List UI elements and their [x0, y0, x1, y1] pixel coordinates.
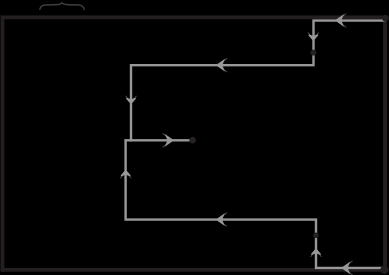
node (frame corner, bottom-right) — [380, 266, 388, 274]
node (frame corner, bottom-left) — [0, 267, 5, 272]
node (terminal dot of jog wire) — [189, 137, 196, 144]
arrow (down, on upper left vertical) — [126, 96, 137, 104]
node (dark bead on upper right vertical) — [310, 50, 316, 56]
node (dark bead on lower right vertical) — [313, 233, 319, 239]
node (frame corner, top-right) — [382, 15, 389, 22]
arrow (left, on top wire) — [336, 14, 346, 28]
arrow (left, on middle horizontal wire) — [217, 58, 227, 72]
arrow (up, on lower left vertical) — [120, 171, 131, 179]
arrow (up, on lower right vertical) — [311, 249, 322, 257]
wire (lower path: up left vertical, bottom horizontal, right vertical, along bottom border) — [126, 139, 385, 268]
arrow (left, on bottom wire) — [342, 261, 352, 275]
arrow (right, on jog horizontal wire) — [163, 133, 173, 147]
brace (overbrace label at top-left) — [40, 3, 84, 9]
wire (middle jog horizontal toward terminal node) — [124, 139, 190, 141]
arrow (left, on bottom middle horizontal wire) — [217, 213, 227, 227]
arrow (down, on upper right vertical) — [308, 32, 319, 40]
wire (top-right entry: along top border, down, left, down) — [131, 21, 386, 142]
